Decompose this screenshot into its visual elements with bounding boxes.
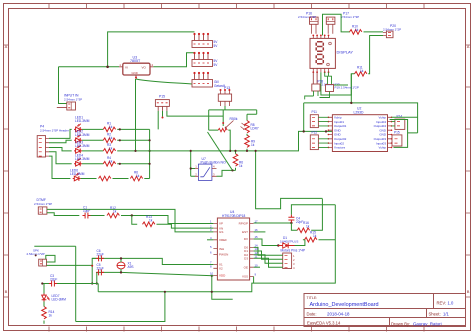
resistor R3	[103, 149, 115, 154]
wire R9b top to net	[235, 151, 237, 171]
wire C3 to LED7	[43, 284, 45, 294]
header P9 5V	[192, 52, 218, 67]
wire P4 pin2 to LED2	[49, 140, 72, 142]
LED7 vertical	[42, 294, 50, 302]
svg-text:VP: VP	[219, 222, 223, 226]
connector INPUT 1*3P	[57, 94, 82, 111]
svg-text:VSS: VSS	[242, 275, 248, 279]
svg-text:1k: 1k	[239, 164, 243, 168]
regulator U3 7805	[119, 55, 154, 79]
connector P19	[320, 72, 359, 97]
svg-text:B: B	[5, 289, 8, 294]
LED3	[74, 146, 82, 154]
connector P13r right	[392, 131, 402, 147]
svg-text:2018-04-18: 2018-04-18	[327, 312, 350, 317]
LED6	[73, 173, 81, 181]
wire OE stub	[254, 266, 260, 268]
resistor R9 vertical	[245, 135, 250, 147]
resistor R6	[130, 176, 142, 181]
svg-text:R50k: R50k	[230, 117, 238, 121]
connector P18	[305, 80, 340, 100]
wire R15 to loop	[319, 239, 336, 241]
svg-text:B: B	[467, 289, 470, 294]
node junction U3 input	[106, 66, 109, 69]
resistor R14 vertical	[42, 307, 47, 319]
wire R4 to bus	[117, 163, 149, 165]
svg-text:LED-3MM: LED-3MM	[52, 298, 67, 302]
svg-text:22pF: 22pF	[50, 278, 57, 282]
LED1	[74, 124, 82, 132]
wire P4 pin3 to LED3	[49, 148, 72, 151]
connector 1*2P bottom left	[27, 249, 47, 267]
connector P11	[310, 110, 328, 128]
wire P4 pin1 to LED1	[49, 129, 72, 138]
svg-text:A: A	[5, 44, 8, 49]
frame bottom ticks	[49, 327, 424, 332]
wire DTMF pin1 to GS	[47, 209, 214, 232]
wire bottom gnd run	[76, 292, 165, 322]
svg-text:RP/GP: RP/GP	[239, 222, 248, 226]
diagonal wire	[208, 132, 233, 170]
connector P12	[310, 131, 328, 150]
wire LED3 to R3	[82, 150, 103, 152]
svg-text:Date:: Date:	[307, 312, 317, 317]
wire R12 to VP	[121, 216, 213, 224]
wire C3 line	[42, 284, 98, 292]
wire branch down to R13	[132, 216, 137, 225]
svg-text:P15: P15	[394, 131, 400, 135]
svg-text:REV:: REV:	[437, 301, 447, 306]
svg-text:P11: P11	[312, 110, 318, 114]
svg-text:1k: 1k	[109, 159, 113, 163]
wire right loop down	[98, 205, 335, 292]
svg-text:1k: 1k	[251, 143, 255, 147]
svg-text:1k: 1k	[313, 234, 317, 238]
resistor R5	[99, 176, 111, 181]
LDR R8	[241, 121, 259, 133]
capacitor C4	[288, 215, 294, 223]
svg-text:1k: 1k	[109, 136, 113, 140]
svg-text:LED-3MM: LED-3MM	[75, 144, 90, 148]
seven segment DISPLAY	[310, 35, 353, 74]
diode D1 1N4007	[278, 236, 298, 248]
wire LED2 to R2	[82, 139, 103, 141]
frame left ticks	[4, 45, 9, 297]
wire R5 to R6	[113, 178, 129, 180]
svg-text:2.54mm 1*3P: 2.54mm 1*3P	[64, 97, 82, 101]
capacitor C3	[49, 281, 57, 287]
connector P15	[155, 95, 169, 119]
wire cap left ends down	[92, 258, 97, 283]
wire P20 pin2 down to R11	[368, 36, 383, 74]
svg-text:1k: 1k	[149, 219, 153, 223]
svg-text:2.54mm 1*3P: 2.54mm 1*3P	[34, 202, 52, 206]
capacitor C6	[96, 255, 104, 261]
svg-text:LED-3MM: LED-3MM	[70, 172, 85, 176]
svg-text:P19 2.54mm 1*2P: P19 2.54mm 1*2P	[335, 86, 359, 90]
svg-text:2.54mm 1*2P: 2.54mm 1*2P	[383, 28, 401, 32]
connector P13 mid	[218, 89, 231, 106]
svg-text:A9S: A9S	[128, 265, 134, 269]
svg-text:GS: GS	[219, 230, 223, 234]
wire R16 up to outer loop	[311, 199, 322, 231]
resistor R11	[355, 66, 367, 77]
wire U3 gnd curve to header3	[136, 79, 192, 84]
svg-text:DISPLAY: DISPLAY	[337, 50, 354, 55]
wire vertical x75 down	[34, 246, 75, 321]
svg-text:2.54mm 1*3P: 2.54mm 1*3P	[341, 15, 359, 19]
wire R2 to bus	[117, 139, 149, 141]
wire U3 gnd down	[135, 79, 137, 151]
svg-text:X2: X2	[219, 267, 223, 271]
wire C1 to R12	[91, 215, 105, 217]
connector P4 header	[37, 125, 69, 158]
wire D1 to R15	[295, 240, 305, 246]
resistor R10	[350, 25, 362, 35]
svg-text:LED-3MM: LED-3MM	[75, 119, 90, 123]
svg-text:Gaurav_Raturi: Gaurav_Raturi	[413, 322, 442, 327]
wire U2 right pins to loop edge	[390, 117, 418, 147]
svg-text:1k: 1k	[306, 225, 310, 229]
wire 1*2P bracket	[46, 255, 55, 262]
svg-text:LDR7: LDR7	[251, 127, 259, 131]
motor driver U2 L293D	[328, 106, 393, 151]
wire D3 to motors	[254, 258, 283, 267]
resistor R1	[103, 127, 115, 132]
svg-text:VI: VI	[125, 65, 128, 69]
header P8 5V	[192, 33, 218, 48]
svg-text:10pF: 10pF	[83, 209, 90, 213]
connector DTMF	[34, 198, 52, 214]
wire VREF stub	[207, 239, 213, 241]
svg-text:Motors Pins 1*4P: Motors Pins 1*4P	[281, 249, 306, 253]
svg-text:1k: 1k	[109, 125, 113, 129]
svg-text:Arduino_DevelopmentBoard: Arduino_DevelopmentBoard	[310, 302, 379, 308]
wire input to U3	[59, 66, 120, 68]
resistor R9b vertical	[233, 154, 238, 166]
svg-text:HT9170B DIP18: HT9170B DIP18	[222, 214, 245, 218]
capacitor C5	[96, 269, 104, 275]
resistor R13	[143, 222, 155, 227]
resistor R2	[103, 138, 115, 143]
svg-text:PWON: PWON	[219, 253, 228, 257]
wire X1 rail	[92, 258, 213, 264]
wire U2 loop top and right	[304, 103, 418, 133]
wire display pin over to R10	[323, 14, 351, 35]
wire EST stub	[254, 231, 266, 233]
wire X2 rail to VDD slope	[97, 272, 214, 275]
connector motors 1*4P	[283, 253, 295, 270]
resistor R15	[305, 237, 317, 242]
svg-text:1k: 1k	[113, 210, 117, 214]
wire display pins to P18	[313, 72, 317, 84]
capacitor C1	[83, 213, 91, 219]
connector P20	[383, 24, 401, 38]
wire LED bus vertical	[149, 129, 151, 178]
svg-text:VDD: VDD	[219, 274, 226, 278]
svg-text:L293D: L293D	[354, 110, 365, 114]
svg-text:VO: VO	[142, 65, 147, 69]
svg-text:Vchip: Vchip	[378, 146, 386, 150]
svg-text:INH: INH	[219, 247, 224, 251]
wire U3 output to header2	[153, 53, 194, 67]
wire R1 to bus	[117, 128, 149, 130]
header P10 GND	[192, 72, 230, 90]
wire LED6 to R5	[81, 178, 97, 180]
trimmer pot R50k	[218, 117, 238, 132]
wire VSS down to loop	[253, 277, 255, 284]
wire pushbutton left up to net	[191, 151, 195, 176]
push button U7	[195, 157, 226, 181]
wire D1pin to motors	[254, 251, 283, 259]
resistor R16	[297, 228, 309, 233]
svg-text:DV: DV	[244, 237, 248, 241]
svg-text:1k: 1k	[355, 28, 359, 32]
wire LDR chain	[246, 134, 248, 151]
svg-text:1/1: 1/1	[443, 312, 449, 317]
dtmf decoder U4 HT9170B	[210, 210, 258, 280]
frame top ticks	[49, 4, 424, 9]
svg-text:LED-3MM: LED-3MM	[75, 157, 90, 161]
svg-text:LED-3MM: LED-3MM	[75, 133, 90, 137]
wire RP to C4	[254, 222, 292, 224]
crystal X1	[117, 257, 134, 273]
wire LED1 to R1	[82, 128, 103, 130]
svg-text:P15: P15	[159, 95, 165, 99]
LED2	[74, 135, 82, 143]
wire D0 to motors	[254, 247, 283, 255]
wire pot ends	[209, 130, 231, 151]
svg-text:Sheet:: Sheet:	[429, 312, 441, 317]
wire C4 bottom to R16	[291, 223, 297, 230]
svg-text:Drawn By:: Drawn By:	[391, 322, 410, 327]
svg-text:EST: EST	[242, 230, 248, 234]
wire LED7 to R14	[43, 302, 45, 324]
wire D2 to motors	[254, 255, 283, 264]
wire R11 left down to U2 loop	[351, 74, 354, 103]
svg-text:7805T: 7805T	[130, 59, 141, 63]
svg-text:EasyEDA V5.3.14: EasyEDA V5.3.14	[307, 321, 341, 326]
connector P17	[326, 12, 359, 34]
svg-text:VREF: VREF	[219, 238, 227, 242]
svg-text:1N4007PLUS: 1N4007PLUS	[280, 240, 298, 244]
resistor R12	[107, 213, 119, 218]
wire 1*2P pin to caps	[47, 264, 93, 266]
svg-text:1k: 1k	[49, 314, 53, 318]
frame right ticks	[466, 45, 471, 297]
svg-text:TITLE:: TITLE:	[307, 296, 318, 300]
LED4	[74, 158, 82, 166]
svg-text:22pF: 22pF	[97, 267, 104, 271]
wire P4 pin5 to LED6	[49, 156, 70, 178]
wire LED4 to R4	[82, 163, 103, 165]
wire P4 pin4 to LED4	[49, 152, 72, 164]
wire R13 to VN	[157, 224, 214, 228]
wire P13 pins spread	[209, 106, 257, 130]
svg-text:D3: D3	[244, 257, 248, 261]
title block	[304, 294, 466, 327]
svg-text:Vmotors: Vmotors	[334, 146, 346, 150]
wire DTMF pin2 to C1	[47, 213, 79, 216]
svg-text:1k: 1k	[109, 147, 113, 151]
wire long net row3	[117, 131, 332, 151]
svg-text:1k: 1k	[136, 174, 140, 178]
svg-text:1.0: 1.0	[448, 301, 454, 306]
wire P15 legs	[158, 111, 223, 129]
wire VDD down	[212, 276, 233, 299]
wire R6 to bus	[144, 178, 149, 180]
connector P14 right	[392, 115, 405, 130]
connector P16	[298, 12, 318, 34]
wire outer loop	[256, 151, 323, 209]
wire input down to INPUT connector	[59, 67, 67, 104]
svg-text:P12: P12	[312, 131, 318, 135]
wire U2 loop left vertical	[303, 103, 305, 131]
svg-text:1k: 1k	[360, 69, 364, 73]
svg-text:OE: OE	[244, 265, 248, 269]
wire display pin3 down and right	[321, 72, 351, 95]
svg-text:2.54mm 1*5P Header: 2.54mm 1*5P Header	[40, 128, 69, 132]
svg-text:GND: GND	[132, 71, 138, 75]
wire pushbutton right to R9b	[217, 170, 236, 176]
resistor R4	[103, 162, 115, 167]
wire 5V rail top	[108, 32, 195, 67]
svg-text:A: A	[467, 44, 470, 49]
wire C4 top to inner loop	[291, 205, 335, 215]
svg-text:P14: P14	[397, 115, 403, 119]
wire R10 to P20	[364, 31, 384, 33]
svg-text:2.54mm 1*3P: 2.54mm 1*3P	[298, 15, 316, 19]
svg-text:22pF: 22pF	[97, 253, 104, 257]
wire DV to D1	[254, 239, 279, 246]
